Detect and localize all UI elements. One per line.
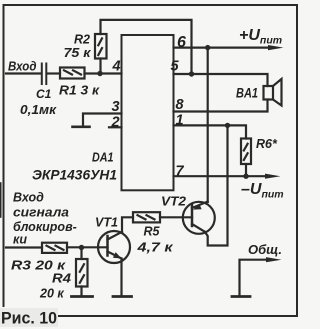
wire VT2 collector to pin1 node (205, 125, 228, 245)
svg-text:Общ.: Общ. (248, 242, 282, 257)
wire pin 2 stub (109, 126, 122, 128)
svg-text:ки: ки (13, 233, 27, 247)
svg-text:R5: R5 (144, 225, 161, 239)
wire R2 bottom to junction (99, 59, 101, 74)
svg-text:сигнала: сигнала (13, 206, 69, 220)
svg-text:8: 8 (176, 97, 185, 113)
wire R2 top feedback loop to pin 5 node (101, 20, 192, 74)
node junction pin6/VT2 emitter (205, 45, 210, 50)
wire pin 1 to R6 top (174, 125, 247, 138)
arrow Obsh (266, 257, 282, 262)
transistor VT2 (183, 202, 215, 234)
node junction pin1/VT2 collector (225, 123, 230, 128)
svg-text:ЭКР1436УН1: ЭКР1436УН1 (32, 167, 117, 183)
speaker BA1 (264, 79, 282, 106)
resistor R6 (241, 139, 251, 165)
svg-text:3: 3 (112, 99, 120, 115)
resistor R1 (60, 68, 85, 79)
svg-text:2: 2 (111, 114, 120, 130)
svg-text:0,1мк: 0,1мк (20, 103, 57, 117)
svg-text:BA1: BA1 (236, 85, 258, 101)
wire pin 8 to speaker bottom (174, 100, 268, 112)
ground R4 (72, 295, 93, 298)
node junction R2/R1/pin4 (97, 71, 102, 76)
svg-text:R4: R4 (52, 272, 71, 286)
wire VT1 emitter to ground (120, 259, 122, 296)
svg-text:20 к: 20 к (39, 287, 64, 301)
wire R5 left to VT1 collector (122, 217, 133, 232)
resistor R4 (76, 259, 88, 287)
svg-text:+Uпит: +Uпит (239, 27, 282, 47)
ground VT1 emitter (113, 295, 132, 298)
node junction R3/R4/base (79, 245, 84, 250)
svg-text:Рис. 10: Рис. 10 (1, 310, 57, 328)
svg-text:6: 6 (177, 34, 186, 51)
svg-text:R6*: R6* (256, 137, 278, 151)
svg-text:R2: R2 (74, 33, 90, 47)
resistor R2 (95, 34, 107, 59)
capacitor C1 (42, 64, 47, 85)
svg-text:C1: C1 (36, 87, 52, 101)
arrow -Upit (265, 174, 281, 179)
wire R5 to VT2 base (160, 216, 192, 218)
wire VT2 emitter to +U node (207, 48, 209, 202)
transistor VT1 (98, 231, 130, 263)
wire R6 bottom to -U rail (245, 164, 247, 176)
scan streak left edge (0, 183, 2, 217)
svg-text:R1 3 к: R1 3 к (59, 84, 100, 98)
wire pin 3 to ground (83, 114, 122, 127)
wire pin 5 to speaker top (174, 74, 268, 86)
caption Ris 10 (0, 308, 58, 328)
resistor R3 (42, 243, 67, 253)
wire pin 7 to -U rail (174, 175, 267, 177)
svg-text:5: 5 (171, 59, 180, 75)
wire pin 6 to +U rail (174, 46, 270, 48)
svg-text:Вход: Вход (13, 191, 44, 205)
wire Obsh common (240, 260, 268, 296)
wire blocking input to R3 (6, 246, 42, 248)
ground Obsh (232, 295, 250, 298)
wire R4 to ground (80, 287, 82, 297)
resistor R5 (133, 212, 160, 222)
svg-text:VT1: VT1 (95, 216, 118, 230)
svg-text:Вход: Вход (8, 60, 37, 74)
svg-text:4,7 к: 4,7 к (136, 241, 173, 255)
wire R1 to pin 4 (85, 72, 122, 74)
svg-text:75 к: 75 к (64, 46, 92, 60)
wire C1 to R1 (47, 72, 60, 74)
wire junction to R4 (80, 248, 82, 260)
ground pin3 (73, 126, 90, 129)
IC DA1 body (122, 35, 174, 190)
svg-text:VT2: VT2 (161, 195, 186, 209)
svg-text:DA1: DA1 (92, 151, 114, 165)
svg-text:1: 1 (176, 113, 184, 129)
node junction R6/-U (243, 174, 248, 179)
svg-text:–Uпит: –Uпит (241, 181, 284, 201)
wire R3 to VT1 base (67, 246, 108, 248)
node junction pin5/R2 (189, 71, 194, 76)
wire input to C1 (6, 72, 41, 74)
svg-text:7: 7 (176, 163, 185, 179)
arrow +Upit (268, 45, 284, 50)
svg-text:R3 20 к: R3 20 к (11, 259, 66, 273)
svg-text:4: 4 (112, 59, 121, 75)
